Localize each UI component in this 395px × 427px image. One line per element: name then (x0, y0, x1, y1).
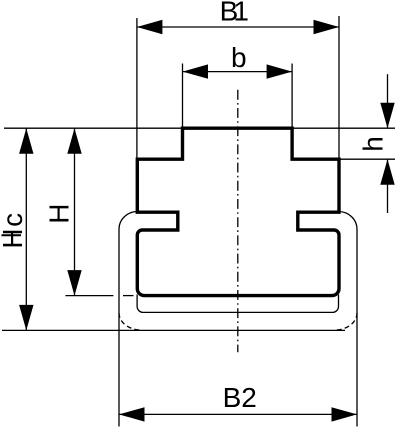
svg-text:H: H (44, 204, 75, 224)
svg-text:h: h (358, 136, 389, 152)
svg-text:B2: B2 (223, 382, 257, 413)
svg-text:Hc: Hc (0, 211, 28, 248)
svg-text:b: b (231, 42, 247, 73)
